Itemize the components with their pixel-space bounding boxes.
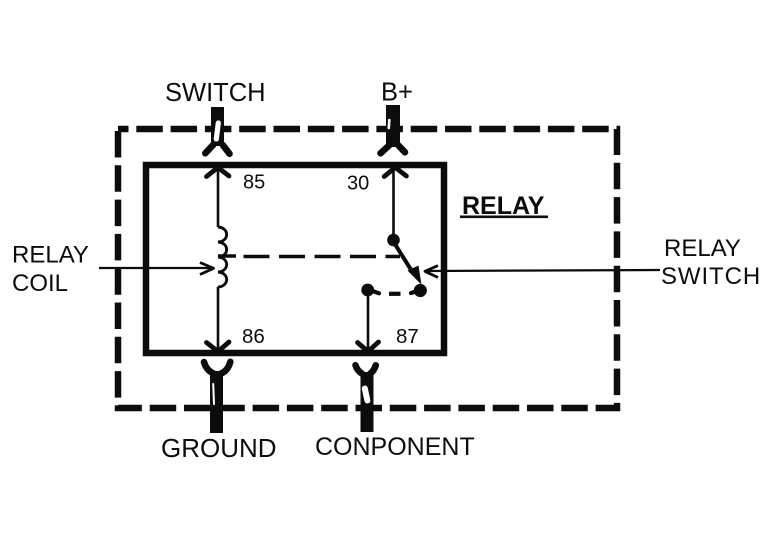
- node dot 87a (arm rest): [414, 284, 427, 297]
- arrow RELAY SWITCH pointer: [425, 266, 660, 278]
- wire 87 down: [367, 296, 370, 350]
- svg-text:SWITCH: SWITCH: [661, 263, 761, 290]
- arrow up at 85: [207, 168, 230, 177]
- arrow down at 87: [358, 342, 379, 352]
- wire coil bottom (86): [217, 287, 220, 350]
- svg-text:30: 30: [347, 173, 369, 195]
- mechanical link dashed line: [218, 254, 236, 258]
- svg-text:85: 85: [243, 172, 265, 194]
- wire switch top (30): [392, 168, 395, 236]
- label RELAY (title): [460, 192, 548, 220]
- svg-text:86: 86: [242, 325, 265, 348]
- arrow up at 30: [384, 168, 406, 177]
- relay box: [146, 165, 444, 353]
- switch arm: [396, 245, 415, 275]
- wire coil top (85): [217, 168, 220, 227]
- svg-text:RELAY: RELAY: [664, 235, 741, 262]
- terminal SWITCH (top left): [205, 107, 229, 154]
- svg-text:B+: B+: [381, 79, 413, 107]
- terminal B+ (top right): [381, 105, 406, 153]
- svg-text:SWITCH: SWITCH: [165, 79, 266, 107]
- svg-text:CONPONENT: CONPONENT: [315, 433, 475, 461]
- terminal GROUND (bottom left): [204, 362, 230, 433]
- arrow down at 86: [207, 342, 230, 352]
- terminal CONPONENT (bottom right): [356, 365, 376, 432]
- label RELAY SWITCH (right): [661, 235, 761, 290]
- node dot common (30): [387, 234, 400, 247]
- node dot 87: [361, 284, 374, 297]
- coil L1: [218, 227, 227, 287]
- outer dashed boundary: [118, 129, 617, 408]
- label RELAY COIL (left): [12, 242, 89, 298]
- switch arm arrowhead: [408, 266, 422, 285]
- svg-text:87: 87: [396, 325, 419, 348]
- dash between 87 dots: [389, 292, 401, 296]
- dot tail: [371, 291, 379, 294]
- svg-text:COIL: COIL: [12, 270, 68, 297]
- arrow RELAY COIL pointer: [99, 263, 214, 275]
- svg-text:GROUND: GROUND: [161, 433, 277, 463]
- svg-text:RELAY: RELAY: [12, 242, 89, 269]
